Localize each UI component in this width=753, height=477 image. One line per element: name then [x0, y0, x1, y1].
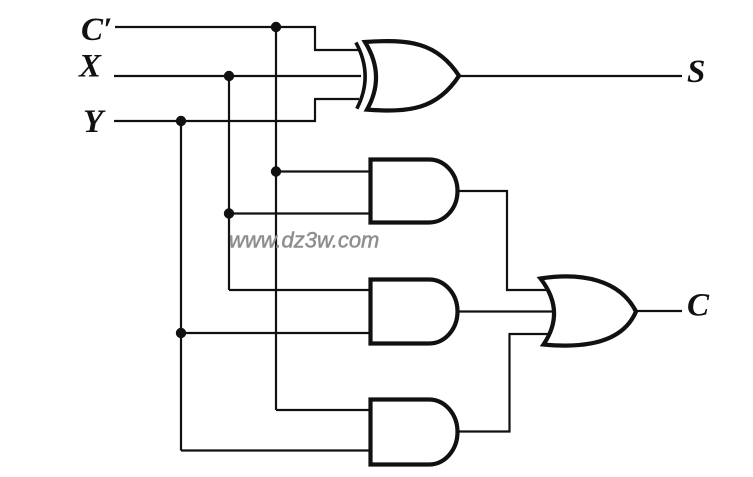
xor-gate U1 input-side double arc [356, 43, 365, 109]
wire Y main horizontal [114, 120, 316, 122]
wire AND1 top input [276, 170, 374, 172]
wire X main horizontal into XOR middle input [114, 75, 361, 77]
junction dot Y line [176, 116, 186, 126]
wire XOR top input [314, 49, 361, 51]
junction dot C' branch at AND1 top input [271, 166, 281, 176]
wire AND1 output to OR top input [456, 191, 552, 290]
svg-text:www.dz3w.com: www.dz3w.com [229, 228, 379, 253]
and-gate U4 (Y·C') [371, 400, 458, 465]
svg-text:X: X [78, 49, 102, 85]
wire X vertical branch lower [228, 213, 230, 290]
wire AND3 output to OR bottom input [456, 334, 552, 432]
wire C' step down into XOR top input [314, 26, 316, 50]
xor-gate U1 body [365, 41, 459, 110]
wire C' main horizontal [115, 26, 316, 28]
or-gate U5 (carry) [541, 276, 637, 345]
wire AND1 bottom input [229, 212, 374, 214]
junction dot C' line [271, 22, 281, 32]
wire AND2 bottom input [181, 332, 374, 334]
wire AND3 top input [276, 409, 374, 411]
wire AND3 bottom input [181, 449, 374, 451]
wire AND2 top input [229, 289, 374, 291]
junction dot Y branch at AND2 bottom input [176, 328, 186, 338]
and-gate U2 (X·C') [371, 160, 458, 223]
and-gate U3 (X·Y) [371, 280, 458, 344]
wire AND2 output to OR middle input [456, 310, 556, 312]
junction dot X line [224, 71, 234, 81]
svg-text:C′: C′ [81, 12, 112, 48]
svg-text:Y: Y [83, 104, 106, 140]
wire XOR bottom input [314, 98, 359, 100]
svg-text:C: C [687, 288, 710, 324]
wire XOR output to S [456, 75, 682, 77]
junction dot X branch at AND1 bottom input [224, 208, 234, 218]
wire X vertical branch upper [228, 76, 230, 214]
svg-text:S: S [687, 54, 705, 90]
wire C' vertical branch upper [275, 27, 277, 172]
wire C' vertical branch lower [275, 171, 277, 410]
wire Y vertical branch upper [180, 121, 182, 333]
wire Y vertical branch lower [180, 333, 182, 451]
wire OR output to C [634, 310, 682, 312]
wire Y step up into XOR bottom input [314, 99, 316, 122]
